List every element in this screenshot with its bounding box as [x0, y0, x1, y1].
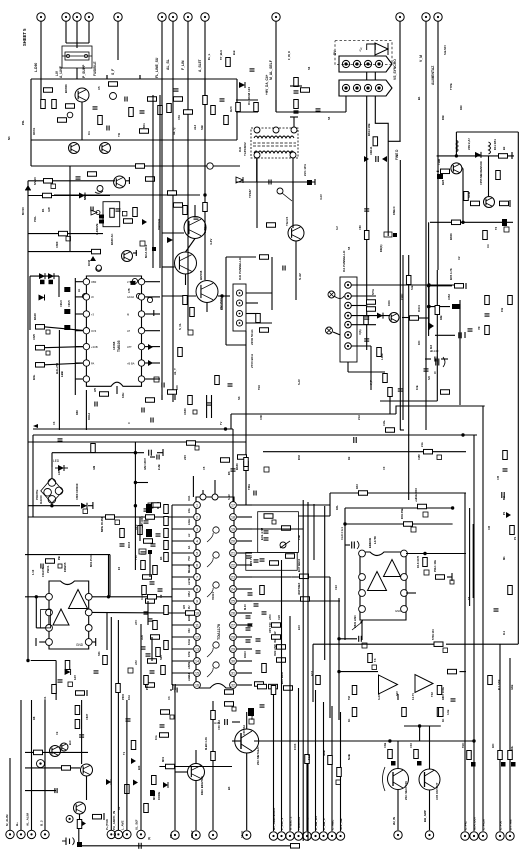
resistor R854 — [388, 750, 393, 759]
svg-text:PRL1 10E: PRL1 10E — [433, 560, 437, 572]
resistor R644 — [256, 314, 261, 323]
resistor R649b — [92, 249, 101, 254]
wire U601 left rail — [74, 278, 76, 395]
U201 left pin 10 — [194, 610, 201, 617]
terminal top x276 — [272, 13, 280, 21]
trimmer arrow2 — [280, 541, 290, 548]
wire rpin1 — [252, 504, 330, 506]
U201 inner wire — [207, 668, 213, 677]
svg-text:W3: W3 — [182, 605, 186, 609]
wire — [175, 771, 187, 773]
svg-text:M/V10: M/V10 — [21, 207, 25, 215]
resistor R858 — [508, 751, 513, 760]
wire — [157, 452, 163, 454]
svg-text:S5: S5 — [347, 246, 351, 250]
wire J5 p2 — [351, 295, 376, 297]
connector J3 pins — [342, 84, 382, 91]
resistor R602 — [52, 100, 57, 109]
resistor R836 — [284, 686, 293, 691]
svg-text:SYA: SYA — [371, 288, 375, 295]
U201 left pin 16 — [194, 682, 201, 689]
wire stem g3c — [212, 701, 214, 830]
sq10 — [232, 707, 236, 711]
capacitor C605 — [294, 91, 299, 93]
U201 right pin 30 — [230, 526, 237, 533]
resistor R847 — [125, 785, 129, 794]
terminal bottom x290 — [286, 832, 294, 840]
resistor R626 — [124, 219, 133, 224]
wire — [39, 641, 45, 643]
U601 pin 6 — [83, 360, 89, 366]
resistor R866 — [352, 708, 357, 717]
wire — [419, 726, 421, 741]
svg-text:TP_BLU: TP_BLU — [219, 50, 223, 60]
svg-text:2700 BCA: 2700 BCA — [250, 353, 254, 368]
wire v81 — [81, 700, 83, 764]
svg-text:1143: 1143 — [432, 349, 439, 353]
svg-text:R648 124: R648 124 — [247, 87, 251, 100]
wire v469 — [469, 508, 471, 606]
wire y452 — [52, 452, 144, 454]
wire curve — [334, 296, 344, 299]
wire v330a — [329, 493, 331, 516]
terminal bottom x31.5 — [27, 830, 35, 838]
wire v477 long — [473, 435, 475, 831]
svg-text:+HIGH R10: +HIGH R10 — [414, 488, 418, 502]
svg-text:NAB: NAB — [347, 754, 351, 760]
wire long v x153 — [152, 95, 154, 268]
wire U201 lpin 7 — [172, 576, 193, 578]
svg-text:C-DRIVE: C-DRIVE — [95, 223, 99, 235]
wire y768 — [25, 767, 80, 769]
transformer T602 windings — [254, 136, 294, 138]
resistor R872 — [439, 708, 444, 717]
resistor R634 — [100, 392, 109, 397]
resistor R664 — [483, 231, 488, 240]
capacitor C608 — [364, 317, 369, 319]
terminal top x162 — [158, 13, 166, 21]
wire y660 — [31, 660, 56, 662]
U201 top pin a — [200, 494, 206, 500]
svg-text:FC03: FC03 — [293, 743, 297, 750]
junction — [337, 670, 340, 673]
capacitor C870 — [254, 604, 259, 606]
wire left v — [69, 166, 71, 252]
U201 left pin 8 — [194, 586, 201, 593]
U201 inner pin circle — [213, 552, 219, 558]
wire J5 p5 — [351, 324, 376, 326]
cap C643b — [82, 294, 87, 299]
svg-text:SELF: SELF — [240, 831, 244, 838]
svg-text:BUT BH10: BUT BH10 — [297, 558, 301, 572]
U800 pin OA — [85, 593, 92, 600]
wire y644b — [446, 643, 518, 645]
U601 pin 13 — [138, 294, 144, 300]
sq7 — [68, 682, 73, 687]
svg-text:R33: R33 — [355, 484, 359, 489]
junction — [50, 504, 53, 507]
cap C641b — [132, 278, 137, 283]
svg-text:R/B: R/B — [439, 315, 443, 320]
resistor R867 — [437, 686, 442, 695]
wire col c — [147, 601, 149, 625]
svg-text:PB01: PB01 — [46, 565, 50, 573]
junction — [203, 193, 206, 196]
resistor R834 — [300, 574, 309, 579]
junction — [224, 427, 227, 430]
resistor R669 — [238, 455, 247, 460]
tick — [128, 177, 130, 184]
svg-text:2: 2 — [196, 515, 198, 519]
svg-text:TL65/M02: TL65/M02 — [243, 142, 247, 156]
connector J5 pins — [345, 282, 352, 350]
wire U601 pin 4 — [75, 330, 83, 332]
triangle mark — [91, 210, 97, 215]
svg-text:FINE D: FINE D — [395, 149, 399, 160]
wire v257 — [256, 158, 258, 228]
svg-text:OB0: OB0 — [91, 280, 97, 284]
wire stem g1 x21 — [20, 700, 22, 830]
wire stem g6d — [499, 644, 501, 831]
svg-text:HELP: HELP — [190, 830, 194, 838]
svg-text:MPE 35.0M: MPE 35.0M — [100, 517, 104, 532]
U601 pin 5 — [83, 343, 89, 349]
svg-text:17: 17 — [231, 503, 235, 507]
U201 inner wire — [207, 648, 213, 657]
svg-text:AT2: AT2 — [134, 660, 138, 665]
capacitor C813 — [148, 619, 153, 621]
wire U601 pin 5 — [75, 346, 83, 348]
svg-text:23A: 23A — [187, 508, 191, 513]
svg-text:PARAB_SUMIN: PARAB_SUMIN — [306, 808, 310, 830]
wire J5 down — [347, 362, 349, 372]
resistor R805 — [76, 691, 85, 696]
svg-text:AT/C: AT/C — [268, 614, 272, 620]
U601 pin 12 — [138, 311, 144, 317]
svg-text:TX2: TX2 — [430, 692, 434, 697]
wire U201 lpin 10 — [172, 612, 193, 614]
wire right — [293, 181, 315, 183]
resistor R662 — [500, 201, 509, 206]
U601 pin 8 — [138, 376, 144, 382]
parts2 — [248, 708, 254, 716]
svg-text:TRC: TRC — [461, 743, 465, 748]
tick — [511, 152, 513, 159]
wire stem g2 x126.9 — [126, 700, 128, 830]
wire stem g3d — [246, 753, 248, 830]
wire v463 — [462, 168, 464, 222]
cap C616 elco — [96, 266, 102, 272]
U201 right pin 24 — [230, 598, 237, 605]
svg-text:GND: GND — [395, 609, 401, 613]
U201 right pin 19 — [230, 658, 237, 665]
T602 pin b — [273, 127, 279, 133]
svg-text:S_CL: S_CL — [178, 323, 182, 330]
capacitor C633 1143 — [436, 359, 439, 366]
wire U201 lpin 3 — [172, 528, 193, 530]
terminal top x66 — [62, 13, 70, 21]
resistor R645 — [260, 328, 269, 333]
capacitor C822 — [260, 559, 265, 561]
resistor R709 — [103, 656, 108, 665]
terminal bottom x281.5 — [277, 832, 285, 840]
wire stem g2 x118.4 — [117, 620, 119, 830]
connector J3 shell — [339, 80, 392, 96]
svg-text:R606: R606 — [449, 233, 453, 240]
resistor R704 — [503, 451, 508, 460]
wire frame top — [226, 256, 256, 258]
svg-text:C23: C23 — [277, 615, 281, 620]
svg-text:S1F: S1F — [200, 125, 204, 130]
sq44 — [150, 790, 155, 795]
sq5 — [115, 520, 120, 525]
capacitor C820 — [264, 531, 269, 533]
svg-text:DR(1): DR(1) — [379, 244, 383, 252]
pad circle — [37, 760, 45, 768]
wire snubber right — [58, 276, 60, 297]
wire — [345, 544, 350, 546]
resistor R642 — [267, 223, 276, 228]
resistor R832 — [286, 554, 295, 559]
svg-text:4: 4 — [196, 539, 198, 543]
U201 right pin 22 — [230, 622, 237, 629]
svg-text:L60: L60 — [57, 470, 61, 475]
cap CP2 black — [64, 309, 70, 314]
svg-text:20: 20 — [231, 539, 235, 543]
svg-text:R831 LIN3: R831 LIN3 — [353, 615, 357, 628]
wire v426b — [425, 335, 427, 430]
resistor R707 — [291, 844, 300, 849]
svg-text:C630: C630 — [183, 408, 187, 415]
terminal bottom x465 — [461, 832, 469, 840]
terminal top x77 — [73, 13, 81, 21]
parts — [139, 549, 146, 554]
resistor R666 — [485, 326, 490, 335]
sq22 — [362, 643, 367, 648]
wire base Q605 — [162, 232, 184, 234]
svg-text:P600: P600 — [121, 693, 125, 700]
sq6 — [58, 564, 62, 568]
resistor R820 — [161, 666, 166, 675]
capacitor C607 — [376, 156, 378, 162]
resistor R839 — [269, 684, 278, 689]
cap C615 black — [49, 280, 54, 285]
terminal top x118 — [114, 13, 122, 21]
resistor R871 — [402, 708, 407, 717]
svg-text:MEAB: MEAB — [187, 565, 191, 573]
filter box A — [258, 512, 299, 553]
svg-text:21B: 21B — [297, 535, 301, 540]
capacitor C811 — [141, 552, 146, 554]
resistor R656 — [388, 388, 393, 397]
svg-text:R1F: R1F — [441, 115, 445, 120]
fuse F601 symbol — [65, 52, 89, 60]
svg-text:C60: C60 — [358, 225, 362, 230]
svg-text:8: 8 — [196, 587, 198, 591]
resistor R721 — [301, 88, 310, 93]
T602 pin c — [291, 127, 297, 133]
IC U800 body — [49, 581, 89, 649]
resistor R811 — [146, 515, 155, 520]
resistor R859 — [77, 820, 82, 829]
cap C640b — [96, 265, 101, 270]
wire main bus A — [33, 428, 233, 430]
wire — [36, 596, 45, 598]
svg-text:S01: S01 — [97, 651, 101, 656]
svg-text:R.1: R.1 — [502, 630, 506, 635]
svg-text:9A: 9A — [187, 546, 191, 549]
svg-text:+HV_DA_C4+: +HV_DA_C4+ — [265, 74, 269, 95]
svg-text:CP05 MB1SENSOR: CP05 MB1SENSOR — [479, 161, 483, 185]
svg-text:B1: B1 — [417, 96, 421, 100]
diode D622 — [131, 758, 136, 764]
resistor R722 — [496, 171, 501, 180]
wire base Q607b — [162, 295, 196, 297]
wire left vertical bus2 — [32, 435, 34, 517]
U800 pin INC — [46, 625, 53, 632]
svg-text:KOH: KOH — [187, 639, 191, 645]
svg-text:C837: C837 — [85, 713, 89, 720]
svg-text:C0: C0 — [382, 466, 386, 470]
junction blob — [77, 842, 82, 847]
resistor R604 — [66, 104, 75, 109]
resistor Rx660 — [277, 658, 286, 663]
svg-text:OV3: OV3 — [91, 329, 97, 333]
wire J3 pin1 left — [276, 111, 346, 113]
svg-text:R8: R8 — [32, 716, 36, 720]
svg-text:R1F: R1F — [459, 105, 463, 110]
capacitor C851 — [359, 636, 362, 642]
svg-text:BU508: BU508 — [199, 270, 203, 280]
resistor R703 — [359, 491, 368, 496]
tick2 — [139, 75, 141, 79]
terminal top x89 — [85, 13, 93, 21]
T602 pin e — [290, 152, 296, 158]
svg-text:C9U3: C9U3 — [59, 300, 63, 307]
wire U201 lpin 2 — [172, 516, 193, 518]
tick — [314, 179, 316, 185]
wire — [214, 480, 216, 494]
wire cluster bottom bus — [31, 139, 237, 141]
wire right b — [92, 611, 172, 614]
resistor R863 — [436, 575, 445, 580]
wire bottom long — [79, 845, 297, 847]
capacitor C632 — [459, 332, 461, 338]
svg-text:AHBH: AHBH — [187, 673, 191, 681]
svg-text:M.BD 4-3K: M.BD 4-3K — [204, 737, 208, 750]
wire down — [370, 346, 372, 390]
svg-text:C05 OUTPUT: C05 OUTPUT — [435, 782, 439, 800]
wire reg bus1 — [437, 155, 514, 157]
svg-text:V_P: V_P — [369, 380, 373, 385]
capacitor C890 — [250, 69, 255, 71]
svg-text:13068: 13068 — [112, 341, 116, 350]
wire — [252, 576, 291, 578]
resistor R650 — [367, 300, 376, 305]
capacitor C829 — [79, 735, 84, 737]
wire U201 lpin 9 — [172, 600, 193, 602]
wire branch c — [435, 334, 455, 336]
resistor R862 — [423, 558, 428, 567]
U201 left pin 4 — [194, 538, 201, 545]
wire — [419, 317, 429, 319]
trimmer RV801 — [352, 622, 362, 630]
svg-text:U_OSL_1: U_OSL_1 — [289, 816, 293, 830]
svg-text:220R 5CA1: 220R 5CA1 — [250, 329, 254, 345]
capacitor C812 — [158, 589, 163, 591]
svg-text:TRACCH: TRACCH — [297, 817, 301, 830]
op-amp U203B — [415, 675, 433, 693]
resistor R610 — [203, 96, 208, 105]
svg-text:B2: B2 — [502, 146, 506, 150]
resistor R692 — [178, 348, 183, 357]
svg-text:18: 18 — [231, 515, 235, 519]
wire bus H4 — [54, 165, 240, 167]
svg-text:26: 26 — [231, 611, 235, 615]
terminal bottom x474 — [470, 832, 478, 840]
wire — [174, 395, 176, 400]
wire U201 rpin 17 — [237, 684, 252, 686]
terminal bottom x21 — [17, 830, 25, 838]
capacitor C638 — [254, 491, 256, 496]
wire — [400, 429, 404, 431]
terminal g5a — [394, 831, 402, 839]
svg-text:M.10: M.10 — [243, 604, 247, 610]
wire U201 lpin 16 — [172, 684, 193, 686]
svg-text:R630: R630 — [235, 463, 239, 470]
transistor Q609 — [451, 163, 462, 174]
wire tie2 — [236, 111, 258, 113]
svg-text:TRM: TRM — [437, 158, 441, 165]
wire U601 pin 9 — [145, 362, 160, 364]
svg-text:AT: AT — [127, 329, 131, 333]
resistor R877 — [142, 586, 147, 595]
cap C601 — [110, 93, 117, 100]
svg-text:+B BA: +B BA — [127, 361, 135, 365]
svg-text:M: M — [127, 312, 129, 316]
transistor Q801 big — [235, 729, 259, 753]
wire U201 rpin 31 — [237, 516, 252, 518]
capacitor C805 — [58, 680, 63, 682]
wire — [252, 600, 300, 602]
wire — [425, 358, 431, 360]
wire J2-J3 a — [366, 72, 368, 80]
sq43 — [128, 668, 133, 673]
wire U201 rpin 27 — [237, 564, 252, 566]
terminal bottom x45 — [41, 830, 49, 838]
svg-text:39/1 LIND: 39/1 LIND — [273, 644, 277, 656]
wire left vertical bus — [27, 181, 29, 442]
wire left pin rail — [171, 505, 173, 685]
resistor R845 — [75, 706, 80, 715]
svg-text:21% 10%: 21% 10% — [303, 164, 307, 176]
wire Q802 c — [195, 750, 197, 764]
wire — [348, 371, 385, 373]
wire — [133, 252, 137, 254]
wire U201 lpin 11 — [172, 624, 193, 626]
svg-text:LUB: LUB — [157, 464, 161, 470]
sq19 — [411, 527, 416, 532]
wire — [256, 158, 258, 182]
diode D611 — [428, 322, 434, 330]
svg-text:AL_SL: AL_SL — [166, 59, 170, 70]
wire from top terminal x77 — [76, 21, 78, 48]
U201 right pin 27 — [230, 562, 237, 569]
svg-text:TV: TV — [219, 421, 223, 425]
svg-text:R601: R601 — [32, 127, 36, 135]
svg-text:2SC SECTION: 2SC SECTION — [404, 781, 408, 800]
wire J4 p4 — [246, 322, 272, 324]
